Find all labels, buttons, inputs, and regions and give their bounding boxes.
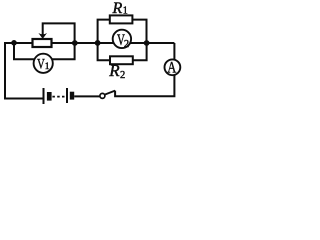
rheostat (slide resistor) body — [33, 39, 52, 47]
battery cell 2 short thick plate (negative) — [70, 92, 74, 100]
svg-text:1: 1 — [45, 62, 50, 72]
svg-text:1: 1 — [123, 6, 128, 17]
wire: dashed link between battery cells — [52, 96, 65, 98]
node A junction dot — [72, 40, 78, 46]
svg-text:A: A — [167, 59, 177, 77]
node C junction dot — [95, 40, 101, 46]
voltmeter V1 — [34, 54, 53, 73]
node B junction dot — [11, 40, 17, 46]
node D junction dot — [144, 40, 150, 46]
svg-text:2: 2 — [120, 70, 125, 81]
resistor R1 body — [110, 15, 133, 23]
wire: R1 branch right lead down to node D — [132, 20, 146, 43]
svg-text:2: 2 — [124, 39, 129, 50]
wire: right side vertical through ammeter and bottom-right — [115, 43, 174, 96]
voltmeter V2 — [113, 30, 131, 50]
battery cell 1 short thick plate (negative) — [47, 92, 52, 101]
switch pivot terminal — [100, 93, 105, 98]
wire: R2 branch right lead up to node D — [133, 43, 147, 60]
switch blade (open) — [105, 91, 115, 95]
resistor R2 body — [110, 56, 133, 64]
wire: main middle horizontal line (node line) — [52, 42, 175, 44]
ammeter A — [165, 59, 181, 77]
wire: slider arm wire from rheostat slider up and right down to node A — [43, 23, 75, 43]
wire: battery to switch — [74, 95, 100, 97]
battery cell 1 long plate (positive) — [43, 88, 45, 104]
wire: R2 branch left lead from node C — [98, 43, 110, 60]
svg-text:R: R — [108, 61, 120, 80]
wire: voltmeter V1 right lead up to node A — [44, 43, 75, 59]
svg-text:R: R — [112, 0, 123, 17]
wire: voltmeter V1 left lead up to node B — [14, 43, 44, 59]
wire: outer loop left side and bottom-left to battery — [5, 43, 44, 99]
wire: R1 branch left lead from node C — [98, 20, 110, 43]
rheostat slider arrow head — [38, 33, 47, 39]
battery cell 2 long plate (positive) — [66, 88, 68, 103]
